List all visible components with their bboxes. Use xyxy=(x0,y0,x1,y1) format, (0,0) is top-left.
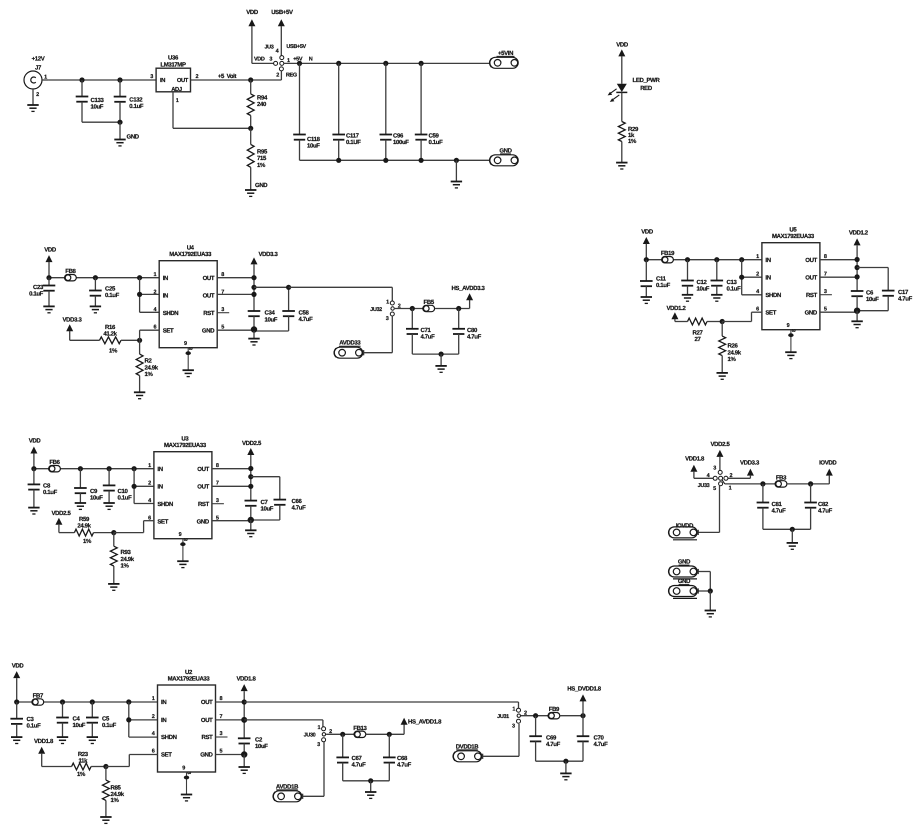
svg-text:OUT: OUT xyxy=(203,275,215,282)
svg-text:6: 6 xyxy=(152,749,155,755)
capacitor C132 xyxy=(114,80,144,122)
svg-text:AVDD33: AVDD33 xyxy=(339,340,361,347)
capacitor C96 xyxy=(380,63,410,160)
power flag VDD (U2 input) xyxy=(12,663,25,703)
wire (U2 OUT7 to JU30) xyxy=(244,720,323,727)
svg-text:FB7: FB7 xyxy=(33,693,44,700)
svg-text:SHDN: SHDN xyxy=(161,734,177,741)
ground (C12) xyxy=(682,295,693,301)
wire (+5 Volt from U36 OUT) xyxy=(191,71,282,83)
svg-text:GND: GND xyxy=(805,309,818,316)
ferrite bead FB6 xyxy=(49,459,61,472)
wire (DVDD1B to JU31 pin3) xyxy=(483,724,519,756)
wire (U3 SET) xyxy=(111,521,154,536)
svg-text:4.7uF: 4.7uF xyxy=(299,316,314,323)
svg-text:VDD2.5: VDD2.5 xyxy=(242,440,262,447)
svg-text:4.7uF: 4.7uF xyxy=(352,761,367,768)
ground (R26) xyxy=(717,373,728,379)
ground (R2) xyxy=(134,392,145,398)
svg-text:9: 9 xyxy=(182,766,185,772)
svg-text:R94: R94 xyxy=(257,95,268,102)
wire (FB13 to HS_AVDD1.8) xyxy=(366,724,404,737)
capacitor C8 xyxy=(28,469,58,508)
thermal pad pin 9 (U5) xyxy=(785,323,796,358)
capacitor C67 xyxy=(336,734,366,781)
svg-text:VDD2.5: VDD2.5 xyxy=(52,510,72,517)
regulator U36 LM317MP xyxy=(150,55,198,105)
wire (FB5 to HS_AVDD3.3) xyxy=(435,300,470,311)
svg-text:OUT: OUT xyxy=(201,699,213,706)
resistor R27 27 xyxy=(688,318,723,343)
ground (R85) xyxy=(100,817,111,823)
svg-text:4.7uF: 4.7uF xyxy=(898,295,913,302)
svg-text:3: 3 xyxy=(150,74,153,80)
svg-text:9: 9 xyxy=(179,532,182,538)
svg-text:C71: C71 xyxy=(421,327,432,334)
capacitor C7 xyxy=(245,499,274,520)
svg-text:3: 3 xyxy=(220,731,223,737)
wire (U4 input rail) xyxy=(46,275,159,280)
svg-text:FB8: FB8 xyxy=(65,268,76,275)
wire (U2 IN2/SHDN branch) xyxy=(126,702,157,737)
svg-text:JU31: JU31 xyxy=(497,714,509,720)
capacitor C23 xyxy=(29,278,55,307)
svg-text:3: 3 xyxy=(269,56,272,62)
svg-text:2: 2 xyxy=(196,74,199,80)
svg-text:C70: C70 xyxy=(594,735,605,742)
svg-text:C82: C82 xyxy=(818,501,829,508)
svg-text:R26: R26 xyxy=(728,343,739,350)
regulator U3 MAX1792EUA33 xyxy=(148,436,224,539)
svg-text:C80: C80 xyxy=(467,327,478,334)
svg-text:R27: R27 xyxy=(693,330,704,337)
svg-text:C12: C12 xyxy=(697,279,708,286)
svg-text:24.9k: 24.9k xyxy=(111,791,125,798)
svg-text:C58: C58 xyxy=(299,309,310,316)
ground (GND pads) xyxy=(705,611,716,617)
svg-text:OUT: OUT xyxy=(197,466,209,473)
ground (C13) xyxy=(711,295,722,301)
ground (C25) xyxy=(90,306,101,312)
svg-text:IN: IN xyxy=(161,699,166,706)
pad GND xyxy=(490,147,519,166)
svg-text:1: 1 xyxy=(729,486,732,492)
svg-text:U36: U36 xyxy=(168,55,179,62)
svg-text:GND: GND xyxy=(197,518,210,525)
wire (U3 GND pin) xyxy=(212,517,254,531)
resistor R23 11k 1% xyxy=(72,751,106,778)
svg-text:10uF: 10uF xyxy=(866,296,879,303)
svg-text:100uF: 100uF xyxy=(393,139,409,146)
svg-text:VDD: VDD xyxy=(254,56,265,62)
ground (C71/C80) xyxy=(435,366,446,372)
power flag VDD1.8 (JU33 pin 4) xyxy=(685,455,713,478)
svg-text:1: 1 xyxy=(386,299,389,305)
svg-text:4.7uF: 4.7uF xyxy=(546,741,561,748)
svg-text:1k: 1k xyxy=(628,132,635,139)
capacitor C118 xyxy=(293,63,320,160)
svg-text:MAX1792EUA33: MAX1792EUA33 xyxy=(169,251,212,258)
svg-text:0.1uF: 0.1uF xyxy=(27,723,42,730)
power flag HS_DVDD1.8 xyxy=(567,685,602,701)
resistor R2 24.9k 1% xyxy=(136,340,159,392)
svg-text:FB9: FB9 xyxy=(549,706,560,713)
power flag VDD (U5 input) xyxy=(641,229,654,260)
svg-text:JU30: JU30 xyxy=(304,733,316,739)
ferrite bead FB5 xyxy=(423,299,435,312)
wire (U3 input rail) xyxy=(31,466,154,471)
svg-text:IOVDD: IOVDD xyxy=(819,460,837,467)
wire (FB3 to IOVDD) xyxy=(787,476,829,487)
ground (C10) xyxy=(103,503,114,509)
jumper JU32 xyxy=(370,299,401,322)
svg-text:C23: C23 xyxy=(33,284,44,291)
svg-text:C66: C66 xyxy=(292,498,303,505)
svg-text:C132: C132 xyxy=(129,97,143,104)
svg-text:0.1uF: 0.1uF xyxy=(29,290,44,297)
svg-text:9: 9 xyxy=(787,323,790,329)
svg-text:27: 27 xyxy=(695,336,702,343)
svg-text:SHDN: SHDN xyxy=(765,292,781,299)
svg-text:JU32: JU32 xyxy=(370,307,382,313)
svg-text:4.7uF: 4.7uF xyxy=(594,741,609,748)
svg-text:GND: GND xyxy=(678,578,691,585)
wire (U5 SET) xyxy=(720,312,762,324)
svg-text:0.1uF: 0.1uF xyxy=(727,286,742,293)
svg-text:SET: SET xyxy=(765,309,776,316)
svg-text:+12V: +12V xyxy=(32,56,45,63)
svg-text:VDD: VDD xyxy=(29,438,42,445)
svg-text:USB+5V: USB+5V xyxy=(286,44,306,50)
svg-text:1%: 1% xyxy=(83,538,92,545)
svg-text:C81: C81 xyxy=(772,501,783,508)
svg-text:RST: RST xyxy=(198,501,210,508)
svg-text:7: 7 xyxy=(216,481,219,487)
svg-text:FB6: FB6 xyxy=(49,459,60,466)
svg-text:4.7uF: 4.7uF xyxy=(772,507,787,514)
ground (C69/C70) xyxy=(560,773,571,779)
wire (U2 OUT rail) xyxy=(216,699,248,738)
svg-text:10uF: 10uF xyxy=(90,494,103,501)
resistor R26 24.9k 1% xyxy=(719,322,742,373)
svg-text:8: 8 xyxy=(216,463,219,469)
svg-text:0.1uF: 0.1uF xyxy=(129,103,144,110)
wire (AVDD1B to JU30 pin3) xyxy=(303,742,324,797)
svg-text:24.9k: 24.9k xyxy=(145,364,159,371)
svg-text:GND: GND xyxy=(127,133,140,140)
svg-text:0.1uF: 0.1uF xyxy=(102,722,117,729)
power flag HS_AVDD3.3 xyxy=(451,285,485,301)
svg-text:10uF: 10uF xyxy=(261,505,274,512)
ferrite bead FB3 xyxy=(775,474,787,487)
svg-text:AVDD1B: AVDD1B xyxy=(276,783,299,790)
thermal pad pin 9 (U3) xyxy=(177,532,188,567)
capacitor C3 xyxy=(10,702,41,737)
svg-text:24.9k: 24.9k xyxy=(121,556,135,563)
ground (C67/C68) xyxy=(365,792,376,798)
capacitor C9 xyxy=(74,469,103,503)
svg-text:1%: 1% xyxy=(728,356,737,363)
svg-text:10uF: 10uF xyxy=(255,743,268,750)
svg-text:J7: J7 xyxy=(35,65,42,72)
svg-text:OUT: OUT xyxy=(203,293,215,300)
svg-text:RST: RST xyxy=(203,310,215,317)
svg-text:SHDN: SHDN xyxy=(157,501,173,508)
capacitor C34 xyxy=(248,309,278,329)
svg-text:SHDN: SHDN xyxy=(163,310,179,317)
svg-text:4.7uF: 4.7uF xyxy=(818,507,833,514)
wire (U4 IN2/SHDN branch) xyxy=(137,278,159,313)
wire (C81/C82 gnd rail) xyxy=(763,527,811,543)
svg-text:VDD3.3: VDD3.3 xyxy=(63,316,83,323)
wire (GND pads) xyxy=(698,572,713,611)
svg-text:REG: REG xyxy=(286,73,297,79)
svg-text:IN: IN xyxy=(765,257,770,264)
capacitor C17 xyxy=(857,268,913,311)
svg-text:JU3: JU3 xyxy=(264,45,273,51)
svg-text:U4: U4 xyxy=(187,245,195,252)
svg-text:VDD: VDD xyxy=(12,663,25,670)
svg-text:VDD1.8: VDD1.8 xyxy=(237,676,257,683)
wire (FB9 to HS_DVDD1.8) xyxy=(560,701,586,718)
svg-text:10uF: 10uF xyxy=(73,722,86,729)
wire (+5V rail) xyxy=(284,61,490,66)
svg-text:MAX1792EUA33: MAX1792EUA33 xyxy=(168,676,211,683)
svg-text:U5: U5 xyxy=(789,227,797,234)
svg-text:SET: SET xyxy=(161,752,172,759)
ground (U5 output caps) xyxy=(851,321,862,327)
pad +5VIN xyxy=(490,50,519,69)
power flag USB+5V (JU3 pin 4) xyxy=(271,9,293,56)
capacitor C11 xyxy=(640,260,671,297)
svg-text:C6: C6 xyxy=(866,289,874,296)
svg-text:0.1uF: 0.1uF xyxy=(656,282,671,289)
svg-text:R23: R23 xyxy=(78,751,89,758)
svg-text:6: 6 xyxy=(756,306,759,312)
power flag VDD (U3 input) xyxy=(29,438,42,469)
svg-text:R2: R2 xyxy=(145,357,153,364)
svg-text:1%: 1% xyxy=(628,138,637,145)
svg-text:1: 1 xyxy=(317,725,320,731)
power flag HS_AVDD1.8 xyxy=(401,718,442,726)
svg-text:C13: C13 xyxy=(727,279,738,286)
capacitor C71 xyxy=(406,309,435,355)
svg-text:GND: GND xyxy=(200,752,213,759)
svg-text:RED: RED xyxy=(640,85,653,92)
svg-text:3: 3 xyxy=(317,742,320,748)
wire (U4 SET) xyxy=(137,330,159,343)
capacitor C80 xyxy=(452,309,481,355)
svg-text:1: 1 xyxy=(152,696,155,702)
wire (JU31 to FB9) xyxy=(521,713,554,718)
svg-text:VDD2.5: VDD2.5 xyxy=(711,441,731,448)
svg-text:2: 2 xyxy=(730,473,733,479)
pad IOVDD xyxy=(669,522,699,540)
wire (U5 OUT rail) xyxy=(820,257,860,291)
wire (U5 GND pin) xyxy=(820,308,860,322)
svg-text:1%: 1% xyxy=(109,348,118,355)
svg-text:C59: C59 xyxy=(429,132,440,139)
svg-text:C11: C11 xyxy=(656,275,667,282)
power flag VDD3.3 (U4 SET divider) xyxy=(63,316,100,340)
svg-text:GND: GND xyxy=(202,327,215,334)
svg-text:JU33: JU33 xyxy=(698,483,710,489)
svg-text:0.1uF: 0.1uF xyxy=(43,489,58,496)
svg-text:C3: C3 xyxy=(27,716,35,723)
svg-text:C96: C96 xyxy=(393,132,404,139)
svg-text:C133: C133 xyxy=(91,97,105,104)
svg-text:R93: R93 xyxy=(121,549,132,556)
power flag VDD3.3 (JU33 pin 2) xyxy=(728,460,760,479)
pad GND (second) xyxy=(669,578,699,598)
thermal pad pin 9 (U2) xyxy=(181,766,192,801)
capacitor C12 xyxy=(681,260,710,295)
wire (U3 IN2/SHDN branch) xyxy=(132,469,154,504)
svg-text:+5VIN: +5VIN xyxy=(498,50,513,57)
svg-text:VDD: VDD xyxy=(616,42,629,49)
wire (U36 ADJ to divider) xyxy=(173,92,251,129)
svg-text:RST: RST xyxy=(806,292,818,299)
svg-text:1%: 1% xyxy=(111,797,120,804)
svg-text:24.9k: 24.9k xyxy=(728,350,742,357)
svg-text:0.1uF: 0.1uF xyxy=(105,292,120,299)
svg-text:VDD: VDD xyxy=(246,9,259,16)
svg-text:R85: R85 xyxy=(111,784,122,791)
svg-text:1: 1 xyxy=(148,463,151,469)
connector J7 (+12V input jack) xyxy=(24,56,49,99)
jumper JU30 xyxy=(304,725,332,748)
wire (+12V rail) xyxy=(49,77,156,82)
power flag VDD2.5 (U3 SET divider) xyxy=(52,510,75,533)
svg-text:C9: C9 xyxy=(90,488,98,495)
svg-text:OUT: OUT xyxy=(177,77,189,84)
power flag VDD (U4 input) xyxy=(44,247,57,278)
svg-text:2: 2 xyxy=(153,290,156,296)
svg-text:FB19: FB19 xyxy=(661,250,675,257)
svg-text:USB+5V: USB+5V xyxy=(271,9,293,16)
svg-text:8: 8 xyxy=(824,254,827,260)
regulator U2 MAX1792EUA33 xyxy=(152,669,228,772)
wire (U2 GND pin) xyxy=(216,751,248,767)
wire (VDD3.3 to JU32) xyxy=(289,287,393,301)
svg-text:VDD: VDD xyxy=(641,229,654,236)
ground (C23) xyxy=(43,306,54,312)
wire (AVDD33 to JU32 pin3) xyxy=(364,316,393,353)
ground (rail) xyxy=(451,160,462,188)
svg-text:0.1uF: 0.1uF xyxy=(429,139,444,146)
ground (C9) xyxy=(75,503,86,509)
svg-text:IN: IN xyxy=(157,484,162,491)
capacitor C66 xyxy=(251,477,306,520)
svg-text:240: 240 xyxy=(257,101,267,108)
svg-text:4.7uF: 4.7uF xyxy=(467,333,482,340)
svg-text:IN: IN xyxy=(163,293,168,300)
capacitor C133 xyxy=(76,80,105,122)
ferrite bead FB9 xyxy=(548,706,560,719)
jumper JU3 xyxy=(254,44,313,79)
resistor R85 24.9k 1% xyxy=(103,767,125,818)
svg-text:4.7uF: 4.7uF xyxy=(421,333,436,340)
capacitor C117 xyxy=(332,63,361,160)
LED LED_PWR RED xyxy=(608,77,661,102)
pad AVDD33 xyxy=(334,340,364,359)
svg-text:IN: IN xyxy=(161,717,166,724)
ground (R95) xyxy=(245,182,268,196)
power flag IOVDD xyxy=(819,460,837,476)
ground (C3) xyxy=(11,737,22,743)
svg-text:VDD1.8: VDD1.8 xyxy=(685,455,705,462)
capacitor C68 xyxy=(383,734,412,781)
jumper JU31 xyxy=(497,707,527,730)
svg-text:1%: 1% xyxy=(145,371,154,378)
svg-text:RST: RST xyxy=(202,734,214,741)
svg-text:3: 3 xyxy=(386,316,389,322)
svg-text:IN: IN xyxy=(163,275,168,282)
capacitor C25 xyxy=(89,278,120,307)
svg-text:5: 5 xyxy=(221,324,224,330)
capacitor C5 xyxy=(86,702,117,737)
svg-text:2: 2 xyxy=(276,73,279,79)
ground (C4) xyxy=(57,737,68,743)
svg-text:LED_PWR: LED_PWR xyxy=(633,77,661,84)
wire (U2 SET) xyxy=(103,755,157,770)
svg-text:C69: C69 xyxy=(546,735,557,742)
wire (C67/C68 gnd rail) xyxy=(343,778,390,792)
ferrite bead FB13 xyxy=(353,725,367,738)
wire (LED to R29) xyxy=(621,92,623,121)
svg-text:OUT: OUT xyxy=(201,717,213,724)
resistor R93 24.9k 1% xyxy=(110,533,134,584)
svg-text:3: 3 xyxy=(512,723,515,729)
svg-text:1%: 1% xyxy=(77,771,86,778)
pad GND (first) xyxy=(669,559,699,579)
pad DVDD1B xyxy=(453,743,483,762)
wire (U5 input rail) xyxy=(644,257,762,262)
svg-text:2: 2 xyxy=(756,272,759,278)
svg-text:R29: R29 xyxy=(628,126,639,133)
capacitor C82 xyxy=(804,484,832,529)
power flag VDD2.5 (JU33 pin 3) xyxy=(711,441,731,471)
svg-text:10uF: 10uF xyxy=(697,286,710,293)
svg-text:9: 9 xyxy=(184,341,187,347)
capacitor C59 xyxy=(415,63,443,160)
svg-text:2: 2 xyxy=(152,714,155,720)
svg-text:VDD: VDD xyxy=(44,247,57,254)
svg-text:5: 5 xyxy=(713,486,716,492)
svg-text:C7: C7 xyxy=(261,499,269,506)
wire (JU32 to FB5) xyxy=(395,306,429,311)
capacitor C13 xyxy=(711,260,742,295)
svg-text:C118: C118 xyxy=(307,136,321,143)
svg-text:VDD1.2: VDD1.2 xyxy=(849,230,869,237)
svg-text:C17: C17 xyxy=(898,289,909,296)
ground (R29) xyxy=(616,163,627,169)
ferrite bead FB7 xyxy=(32,693,44,706)
jumper JU33 xyxy=(698,465,733,492)
svg-text:HS_DVDD1.8: HS_DVDD1.8 xyxy=(567,685,602,692)
svg-text:VDD3.3: VDD3.3 xyxy=(740,460,760,467)
capacitor C70 xyxy=(577,716,608,762)
svg-text:MAX1792EUA33: MAX1792EUA33 xyxy=(772,233,815,240)
ground (input caps) xyxy=(114,133,140,146)
ground (C2) xyxy=(239,767,250,773)
resistor R94 240 xyxy=(247,80,268,128)
svg-text:HS_AVDD3.3: HS_AVDD3.3 xyxy=(451,285,485,292)
svg-text:C34: C34 xyxy=(265,309,276,316)
svg-text:OUT: OUT xyxy=(805,257,817,264)
svg-text:2: 2 xyxy=(148,481,151,487)
svg-text:OUT: OUT xyxy=(805,275,817,282)
